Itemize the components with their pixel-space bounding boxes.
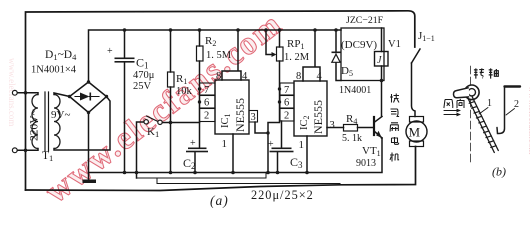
svg-text:V1: V1 bbox=[388, 39, 401, 50]
svg-text:4: 4 bbox=[317, 71, 323, 82]
svg-text:C3: C3 bbox=[290, 155, 303, 170]
svg-text:1: 1 bbox=[487, 98, 492, 109]
svg-text:M: M bbox=[409, 125, 421, 140]
svg-text:8: 8 bbox=[216, 71, 221, 82]
svg-text:1: 1 bbox=[222, 138, 228, 150]
svg-text:25V: 25V bbox=[133, 81, 152, 92]
svg-text:10k: 10k bbox=[176, 86, 193, 97]
svg-text:3: 3 bbox=[330, 120, 335, 131]
svg-text:7: 7 bbox=[284, 85, 289, 96]
svg-text:D5: D5 bbox=[341, 65, 353, 78]
svg-text:9013: 9013 bbox=[356, 158, 376, 169]
svg-text:1: 1 bbox=[299, 139, 305, 151]
svg-text:VT1: VT1 bbox=[362, 145, 381, 158]
svg-text:220μ/25×2: 220μ/25×2 bbox=[251, 188, 314, 202]
svg-text:1N4001×4: 1N4001×4 bbox=[31, 65, 77, 76]
svg-text:9V~: 9V~ bbox=[51, 109, 70, 121]
svg-text:5. 1k: 5. 1k bbox=[342, 133, 362, 144]
svg-text:7: 7 bbox=[204, 85, 209, 96]
svg-text:D1~D4: D1~D4 bbox=[45, 49, 77, 62]
svg-text:R2: R2 bbox=[205, 35, 216, 48]
svg-text:IC2: IC2 bbox=[299, 116, 311, 131]
svg-text:JZC−21F: JZC−21F bbox=[346, 15, 384, 26]
svg-text:3: 3 bbox=[251, 112, 256, 123]
svg-text:(DC9V): (DC9V) bbox=[341, 39, 377, 51]
svg-text:6: 6 bbox=[284, 98, 289, 109]
svg-text:C1: C1 bbox=[136, 56, 149, 71]
svg-text:www.elecfans.com: www.elecfans.com bbox=[39, 6, 290, 211]
svg-text:2: 2 bbox=[284, 111, 289, 122]
svg-text:2: 2 bbox=[204, 111, 209, 122]
svg-text:C2: C2 bbox=[183, 156, 196, 171]
svg-text:NE555: NE555 bbox=[233, 98, 247, 132]
svg-text:4: 4 bbox=[242, 71, 248, 82]
svg-text:470μ: 470μ bbox=[133, 70, 155, 81]
svg-text:(b): (b) bbox=[492, 165, 506, 179]
svg-text:RP1: RP1 bbox=[287, 38, 304, 51]
svg-text:1. 5M: 1. 5M bbox=[206, 50, 232, 61]
svg-text:J: J bbox=[377, 55, 382, 66]
svg-text:+: + bbox=[268, 139, 274, 150]
svg-text:NE555: NE555 bbox=[311, 100, 325, 134]
svg-text:+: + bbox=[190, 138, 196, 149]
svg-text:1. 2M: 1. 2M bbox=[284, 52, 310, 63]
svg-text:+: + bbox=[107, 46, 113, 57]
svg-text:(a): (a) bbox=[210, 193, 229, 208]
svg-text:IC1: IC1 bbox=[220, 114, 232, 129]
svg-text:J1−1: J1−1 bbox=[418, 30, 435, 43]
svg-text:2: 2 bbox=[514, 99, 519, 110]
svg-text:8: 8 bbox=[296, 71, 301, 82]
svg-text:1N4001: 1N4001 bbox=[339, 85, 371, 96]
svg-text:6: 6 bbox=[204, 98, 209, 109]
svg-text:T1: T1 bbox=[42, 150, 53, 163]
svg-text:R4: R4 bbox=[346, 113, 357, 126]
svg-text:220V~: 220V~ bbox=[29, 109, 41, 141]
